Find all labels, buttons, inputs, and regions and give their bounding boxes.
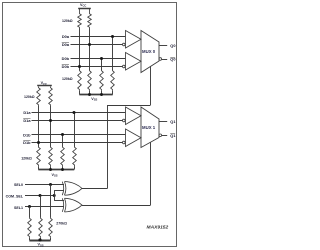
wire net D0a [71,36,126,38]
junction rail1/d2 [49,168,52,171]
svg-text:MUX 0: MUX 0 [142,49,156,54]
svg-text:120kΩ: 120kΩ [62,77,73,81]
receiver U1a input bubble [123,43,126,46]
junction COM_SEL/R14 [39,194,42,197]
resistor R5 120k pull-down [100,70,104,91]
junction SEL1/R13 [28,205,31,208]
svg-text:270kΩ: 270kΩ [56,222,67,226]
svg-text:120kΩ: 120kΩ [24,95,35,99]
node D1a-bar label [23,118,31,123]
junction d3/D1b [61,133,64,136]
wire net COM_SEL [25,195,54,197]
junction rail/R14 [38,238,41,241]
wire net SEL1 [25,206,64,208]
receiver U1b triangle [126,53,142,71]
label 120k (pull-ups R7 R8) [24,95,35,99]
svg-text:MUX 1: MUX 1 [142,125,156,130]
resistor R7 120k pull-up [37,87,41,107]
junction d2/D1a-bar [49,119,52,122]
wire net SEL0 [25,184,64,186]
node SEL1 label [14,206,23,210]
svg-text:120kΩ: 120kΩ [62,19,73,23]
wire column c1 (R1 to D0b-bar to R3) [79,29,81,71]
junction rail/c2 [88,93,91,96]
svg-text:D0b: D0b [62,56,70,61]
wire net D0b [71,58,126,60]
wire column d2 (R8 to D1a-bar to R10) [50,106,52,147]
label 120k (pull-downs R3-R6) [62,77,73,81]
wire output Q1 [159,121,167,123]
receiver U3a input bubble [123,119,126,122]
wire net D1b-bar [32,142,123,144]
resistor R8 120k pull-up [49,87,53,107]
resistor R6 120k pull-down [111,70,115,91]
wire output Q0-bar [162,59,168,61]
resistor R3 120k pull-down [78,70,82,91]
wire MUX0 select routing [82,66,151,188]
svg-text:Q1: Q1 [170,119,176,124]
junction c2/D0a-bar [88,43,91,46]
resistor R9 120k pull-down [37,146,41,166]
resistor R15 270k [49,217,53,238]
junction d1/D1b-bar [37,141,40,144]
resistor R10 120k pull-down [49,146,53,166]
wire output Q1-bar [162,135,168,137]
svg-text:D1b: D1b [23,132,31,137]
node Q1 label [170,119,176,124]
node SEL0 label [14,183,23,187]
wire net D1b [32,134,126,136]
node D1a label [23,110,31,115]
label 120k (pull-ups R1 R2) [62,19,73,23]
svg-text:MAX9152: MAX9152 [147,225,169,231]
resistor R11 120k pull-down [61,146,65,166]
node D0a-bar label [62,42,70,47]
wire column d4 (D1a to R12) [74,113,76,147]
resistor R2 120k pull-up [88,13,92,29]
junction SEL0/R15 [49,183,52,186]
resistor R13 270k [28,217,32,238]
part label MAX9152 [147,225,169,231]
receiver U3b input bubble [123,141,126,144]
wire R14 column [40,196,42,218]
junction COM_SEL split [53,194,56,197]
svg-text:SEL1: SEL1 [14,206,23,210]
junction rail/c3 [100,93,103,96]
wire column c3 (D0b to R5) [101,59,103,71]
resistor R14 270k [39,217,43,238]
xor gate U5 (SEL0 xor COM_SEL) [62,182,82,196]
node Q1-bar label [170,133,176,138]
junction c1/D0b-bar [78,65,81,68]
node D0a label [62,34,70,39]
wire net D1a-bar [32,120,123,122]
wire COM_SEL to XOR1 input [54,190,64,195]
wire output Q0 [159,45,167,47]
wire net D0b-bar [71,66,123,68]
wire net D0a-bar [71,44,123,46]
wire COM_SEL to XOR2 input [54,196,64,201]
wire MUX1 select routing [82,142,151,205]
resistor R1 120k pull-up [78,13,82,29]
wire rail Vss (select) [29,238,50,241]
node D1b-bar label [23,140,31,145]
svg-text:VCC: VCC [80,3,86,8]
ground Vss label (select) [37,243,43,248]
output bubble Q0-bar [159,58,162,61]
svg-text:D0a: D0a [62,34,70,39]
ground Vss label (group 0) [91,97,97,102]
svg-text:Q0: Q0 [170,43,175,48]
wire column c2 (R2 to D0a-bar to R4) [89,29,91,71]
resistor R4 120k pull-down [88,70,92,91]
node Q0 label [170,43,175,48]
wire net D1a [32,112,126,114]
svg-text:COM_SEL: COM_SEL [6,195,24,199]
ground Vss label (group 1) [51,173,57,178]
receiver U3b triangle [126,129,142,147]
junction rail1/d3 [61,168,64,171]
receiver U3a triangle [126,107,142,125]
wire rail Vss (group 0) [79,91,112,95]
junction d4/D1a [73,111,76,114]
wire R13 column [29,207,31,218]
node D1b label [23,132,31,137]
output bubble Q1-bar [159,134,162,137]
resistor R12 120k pull-down [73,146,77,166]
wire rail Vss (group 1) [38,166,74,169]
receiver U1a triangle [126,31,142,49]
svg-text:SEL0: SEL0 [14,183,23,187]
junction c3/D0b [100,57,103,60]
label 120k (pull-downs R9-R12) [21,156,32,160]
label 270k (R13-R15) [56,222,67,226]
mux U4 MUX 1 [141,107,159,148]
node D0b label [62,56,70,61]
wire column d3 (D1b to R11) [62,135,64,147]
node COM_SEL label [6,195,24,199]
wire R15 column [50,185,52,218]
xor gate U6 (COM_SEL xor SEL1) [62,198,82,212]
node D0b-bar label [62,64,70,69]
svg-text:120kΩ: 120kΩ [21,156,32,160]
wire column d1 (R7 to D1b-bar to R9) [38,106,40,147]
mux U2 MUX 0 [141,31,159,73]
wire column c4 (D0a to R6) [112,37,114,71]
svg-text:D1a: D1a [23,110,31,115]
power Vcc (MUX 1 pull-ups) [37,81,52,86]
junction c4/D0a [111,35,114,38]
power Vcc (MUX 0 pull-ups) [78,3,91,13]
node Q0-bar label [170,57,175,62]
receiver U1b input bubble [123,65,126,68]
